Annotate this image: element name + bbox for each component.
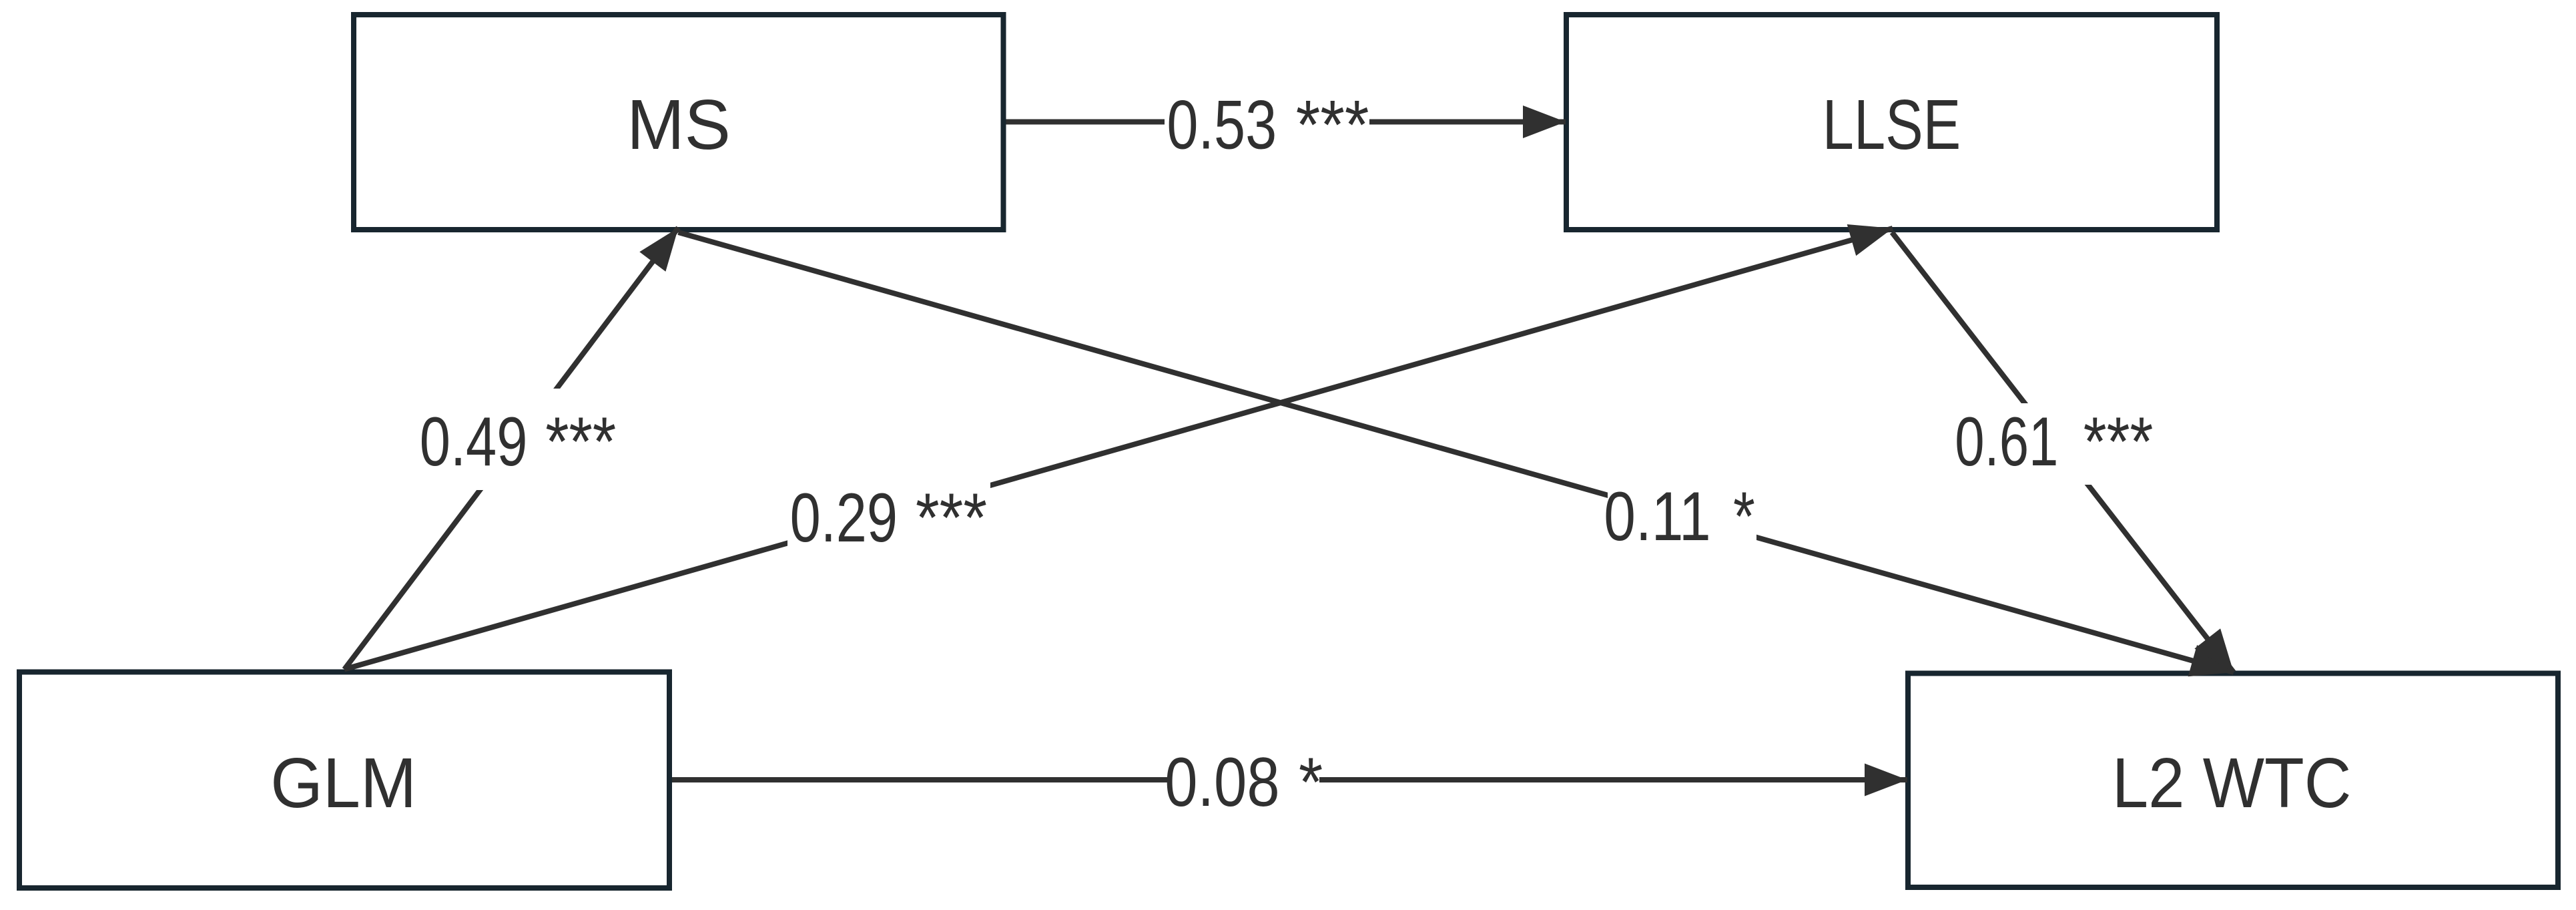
svg-text:0.53: 0.53 xyxy=(1167,87,1277,164)
svg-text:0.29: 0.29 xyxy=(790,479,898,557)
svg-text:MS: MS xyxy=(627,85,731,164)
svg-text:0.61: 0.61 xyxy=(1955,403,2058,481)
svg-text:LLSE: LLSE xyxy=(1823,85,1961,164)
svg-text:***: *** xyxy=(545,403,616,481)
svg-text:*: * xyxy=(1733,478,1755,555)
svg-text:0.11: 0.11 xyxy=(1604,478,1710,555)
svg-text:***: *** xyxy=(916,479,987,557)
svg-text:*: * xyxy=(1299,744,1323,821)
svg-text:GLM: GLM xyxy=(270,744,416,823)
svg-text:***: *** xyxy=(2083,403,2154,481)
svg-text:0.08: 0.08 xyxy=(1165,744,1279,821)
svg-text:0.49: 0.49 xyxy=(420,403,528,481)
svg-text:***: *** xyxy=(1296,86,1369,164)
svg-text:L2 WTC: L2 WTC xyxy=(2112,744,2352,823)
